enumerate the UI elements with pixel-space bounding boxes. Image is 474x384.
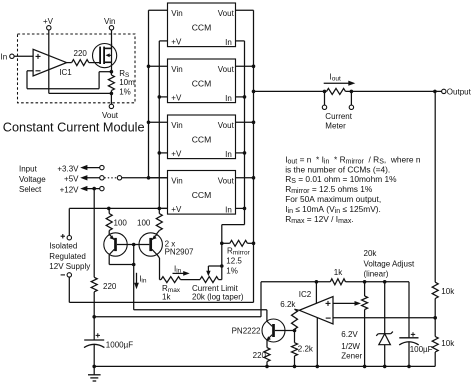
svg-text:In: In xyxy=(1,53,8,62)
svg-text:Meter: Meter xyxy=(325,121,346,130)
resistor R5 220 (supply filter) xyxy=(91,277,97,340)
wire IC2 + input to pot wiper arrow xyxy=(333,301,361,306)
resistor R9 1k xyxy=(330,279,345,285)
CCM module block U2 xyxy=(168,59,236,103)
terminal Vout (module output pin) xyxy=(102,104,119,120)
wire base tie down to collector join xyxy=(133,245,135,265)
terminal Output xyxy=(442,88,472,97)
node R6 ground xyxy=(265,365,269,369)
svg-text:10k: 10k xyxy=(441,339,455,348)
potentiometer Current Limit 20k (log taper) xyxy=(200,277,222,283)
label +12V xyxy=(60,186,80,195)
svg-text:Current: Current xyxy=(325,112,352,121)
wire supply - down right to Vout bus xyxy=(69,277,253,302)
svg-text:Vin: Vin xyxy=(171,121,182,130)
dotted link +5V selected xyxy=(104,177,117,179)
node Rs top (source sense node) xyxy=(110,70,114,74)
svg-text:Isolated: Isolated xyxy=(49,242,77,251)
transistor Q3 PN2907 (mirror output side) xyxy=(139,233,162,256)
svg-text:+V: +V xyxy=(171,94,182,103)
svg-text:Vin: Vin xyxy=(171,9,182,18)
select arrow +12V xyxy=(80,186,100,191)
node pot ground xyxy=(363,365,367,369)
wire +5V to Vin bus xyxy=(122,177,168,179)
svg-text:+V: +V xyxy=(171,205,182,214)
wire 220 to MOSFET gate xyxy=(89,62,100,64)
resistor R12 10k (divider bottom) xyxy=(432,337,438,367)
dashed module boundary box xyxy=(18,34,136,103)
label PN2222 xyxy=(232,327,261,336)
select arrow +5V xyxy=(80,175,100,180)
wire Vout pin stub U1 xyxy=(236,9,254,11)
ground return bus xyxy=(94,365,435,367)
svg-text:Zener: Zener xyxy=(341,351,362,360)
node ground bus left xyxy=(92,365,96,369)
resistor Rmax 1k xyxy=(160,277,181,283)
label +3.3V xyxy=(57,165,79,174)
label 2 x PN2907 xyxy=(165,239,194,256)
label Input Voltage Select xyxy=(19,165,46,194)
label R11 10k xyxy=(441,287,455,296)
resistor Rs 10m 1% (current sense) xyxy=(108,72,114,94)
label Rs value xyxy=(119,69,135,97)
CCM module block U3 xyxy=(168,115,236,159)
svg-text:PN2907: PN2907 xyxy=(165,247,194,256)
wire Q3 collector down to Rmax xyxy=(157,254,160,279)
svg-text:Vout: Vout xyxy=(218,65,235,74)
label 6.2k xyxy=(280,300,296,309)
svg-text:100µF: 100µF xyxy=(410,345,433,354)
label R4 100 xyxy=(137,219,151,228)
wire Q4 emitter down xyxy=(266,340,268,348)
svg-text:In: In xyxy=(225,206,232,215)
wire IC2 V+ pin xyxy=(315,282,317,303)
label Rmirror 12.5 1% xyxy=(226,246,250,275)
wire +V pin stub U1 xyxy=(159,40,167,42)
svg-text:Vout: Vout xyxy=(102,111,119,120)
node base tie xyxy=(132,243,136,247)
node C2 ground xyxy=(407,365,411,369)
svg-text:Regulated: Regulated xyxy=(49,252,85,261)
wire In terminal to op-amp + input xyxy=(14,55,33,57)
svg-text:PN2222: PN2222 xyxy=(232,327,261,336)
transistor Q2 PN2907 (mirror diode side) xyxy=(104,233,127,256)
wire Q4 base to bias node xyxy=(275,330,295,332)
svg-text:+V: +V xyxy=(171,150,182,159)
CCM module block U1 xyxy=(168,3,236,47)
node Q4 base bias xyxy=(293,329,297,333)
label +5V xyxy=(64,175,79,184)
wire supply + up to +V rail xyxy=(68,208,70,235)
wire Vout pin stub U2 xyxy=(236,65,254,67)
terminal meter left xyxy=(322,105,326,109)
wire Vin pin stub U4 xyxy=(149,177,168,179)
node wiper tie to In bus xyxy=(220,264,224,268)
wire base tie Q2-Q3 xyxy=(117,244,149,246)
svg-text:Constant Current Module: Constant Current Module xyxy=(3,120,145,134)
wire Iin programming line down xyxy=(133,265,135,310)
label R3 100 xyxy=(114,219,128,228)
svg-text:+3.3V: +3.3V xyxy=(57,165,79,174)
label 2.2k xyxy=(298,344,314,353)
svg-text:In: In xyxy=(225,150,232,159)
node In (module input terminal) xyxy=(1,53,15,62)
node IC2 V- ground xyxy=(316,365,320,369)
svg-text:CCM: CCM xyxy=(192,23,212,33)
svg-text:1%: 1% xyxy=(119,88,131,97)
svg-text:+12V: +12V xyxy=(60,186,80,195)
wire meter tap right xyxy=(350,91,352,105)
note formula text block xyxy=(285,154,421,224)
wire feedback: op-amp - input to Rs top (sense) xyxy=(27,71,111,89)
terminal supply + xyxy=(61,234,72,240)
wire IC2 V- pin to ground bus xyxy=(316,318,318,367)
svg-text:220: 220 xyxy=(253,351,267,360)
svg-text:10m: 10m xyxy=(119,78,135,87)
svg-text:Vin: Vin xyxy=(104,17,115,26)
svg-text:Output: Output xyxy=(447,88,472,97)
terminal +5V link right xyxy=(117,176,121,180)
node rail R3 xyxy=(107,207,111,211)
node divider tap xyxy=(433,316,437,320)
svg-text:12V Supply: 12V Supply xyxy=(49,262,90,271)
svg-text:+V: +V xyxy=(171,38,182,47)
caption Constant Current Module xyxy=(3,120,145,134)
svg-text:20k: 20k xyxy=(364,249,378,258)
svg-text:220: 220 xyxy=(103,282,117,291)
label Rmax 1k xyxy=(162,284,181,302)
terminal Vin (module drain supply pin) xyxy=(104,17,115,30)
label R6 220 xyxy=(253,351,267,360)
label Iin with right arrow (into pot) xyxy=(173,264,190,276)
pot wiper arrow xyxy=(206,266,222,276)
wire In pin stub U2 xyxy=(236,96,245,98)
svg-text:In: In xyxy=(225,94,232,103)
svg-text:+5V: +5V xyxy=(64,175,79,184)
wire main output line xyxy=(254,90,442,92)
svg-text:100: 100 xyxy=(137,219,151,228)
label 20k Voltage Adjust (linear) xyxy=(364,249,415,278)
junction dots on Vout bus xyxy=(252,65,256,180)
wire mid rail to IC2 section riser xyxy=(94,282,261,317)
potentiometer R10 20k Voltage Adjust xyxy=(362,282,368,367)
reference rail horizontal xyxy=(261,281,409,283)
resistor 220 (gate series) xyxy=(72,49,89,65)
svg-text:Vout: Vout xyxy=(218,9,235,18)
wire IC2 - input to divider tap xyxy=(333,317,435,319)
wire In pin stub U1 xyxy=(236,40,245,42)
node Rmirror right xyxy=(252,242,256,246)
svg-text:Input: Input xyxy=(19,165,38,174)
resistor R7 6.2k (IC2 out to base) xyxy=(292,309,300,330)
svg-text:IC2: IC2 xyxy=(299,290,312,299)
terminal supply - xyxy=(61,273,72,277)
svg-text:1/2W: 1/2W xyxy=(341,342,360,351)
wire Vout pin stub U4 xyxy=(236,177,254,179)
svg-text:For 50A maximum output,: For 50A maximum output, xyxy=(285,194,381,204)
wire +12V down to 220 filter resistor xyxy=(93,189,95,278)
svg-text:Voltage: Voltage xyxy=(19,175,46,184)
svg-text:CCM: CCM xyxy=(192,135,212,145)
svg-text:12.5: 12.5 xyxy=(226,257,242,266)
wire op-amp output to resistor 220 xyxy=(67,62,72,64)
wire Vin pin stub U3 xyxy=(149,121,168,123)
wire Q2 collector to join xyxy=(109,255,134,265)
wire +V pin stub U3 xyxy=(159,152,167,154)
wire +V pin stub U2 xyxy=(159,96,167,98)
svg-text:10k: 10k xyxy=(441,287,455,296)
svg-text:In: In xyxy=(225,38,232,47)
wire In pin stub U4 xyxy=(236,207,245,209)
wire In pin stub U3 xyxy=(236,152,245,154)
svg-text:Vout: Vout xyxy=(218,121,235,130)
svg-text:Vin: Vin xyxy=(171,65,182,74)
label Current Meter xyxy=(325,112,352,130)
junction dots on In bus xyxy=(243,95,247,210)
terminal select +12V xyxy=(100,186,104,190)
Vin bus vertical wire xyxy=(148,10,150,178)
svg-text:100: 100 xyxy=(114,219,128,228)
wire output down to divider xyxy=(434,91,436,282)
wire Vin terminal down to MOSFET drain xyxy=(111,30,113,49)
label Isolated Regulated 12V Supply xyxy=(49,242,90,271)
node zener ground xyxy=(383,365,387,369)
wire Rs bottom to Vout terminal xyxy=(110,93,112,104)
wire +V pin stub U4 xyxy=(159,207,167,209)
wire Vin pin stub U2 xyxy=(149,65,168,67)
label Iin with down arrow xyxy=(134,273,147,289)
svg-text:Vout: Vout xyxy=(218,177,235,186)
select arrow +3.3V xyxy=(80,165,100,170)
ground symbol xyxy=(88,375,101,381)
transistor Q4 PN2222 xyxy=(262,319,285,342)
wire Vout pin stub U3 xyxy=(236,121,254,123)
svg-text:1%: 1% xyxy=(226,267,238,276)
svg-text:20k (log taper): 20k (log taper) xyxy=(192,293,244,302)
svg-text:Voltage Adjust: Voltage Adjust xyxy=(364,259,415,268)
+V supply rail horizontal xyxy=(69,207,167,209)
svg-text:CCM: CCM xyxy=(192,190,212,200)
current meter shunt resistor xyxy=(327,88,346,94)
resistor R8 2.2k (base-ground) xyxy=(292,331,298,367)
label Iout with arrow xyxy=(324,73,356,86)
wire meter tap left xyxy=(324,91,326,105)
node meter right xyxy=(350,90,354,94)
node collector-base join (diode connection) xyxy=(132,263,136,267)
svg-text:+V: +V xyxy=(43,17,54,26)
terminal +V (module supply pin) xyxy=(43,17,54,30)
wire Iin line over to Q4 collector xyxy=(134,310,267,321)
junction dots on Vin bus xyxy=(147,65,151,180)
wire Vin pin stub U1 xyxy=(149,9,168,11)
node IC2 V+ tap on rail xyxy=(315,280,319,284)
svg-text:2.2k: 2.2k xyxy=(298,344,314,353)
terminal select +5V xyxy=(100,176,104,180)
wire +V terminal down and to Rs bottom node xyxy=(49,30,112,94)
label 6.2V 1/2W Zener xyxy=(341,330,362,360)
node Rmirror left xyxy=(220,242,224,246)
svg-text:220: 220 xyxy=(74,49,88,58)
resistor R4 100 (mirror emitter) xyxy=(156,208,162,234)
svg-text:6.2k: 6.2k xyxy=(280,300,296,309)
resistor Rmirror 12.5 1% xyxy=(222,240,254,246)
label 1k xyxy=(334,268,343,277)
node rail zener xyxy=(383,280,387,284)
zener diode D1 6.2V xyxy=(376,282,393,367)
node output feedback tap xyxy=(433,90,437,94)
capacitor C1 1000uF xyxy=(84,333,133,366)
node rail pot xyxy=(363,280,367,284)
junction dots on +V bus xyxy=(158,95,162,210)
svg-text:is the number of CCMs (=4).: is the number of CCMs (=4). xyxy=(285,164,390,174)
node filter cap top xyxy=(92,315,96,319)
svg-text:(linear): (linear) xyxy=(364,269,389,278)
svg-text:6.2V: 6.2V xyxy=(341,330,358,339)
resistor R11 10k (divider top) xyxy=(432,282,438,336)
svg-text:Select: Select xyxy=(19,185,42,194)
label Current Limit 20k xyxy=(192,284,244,302)
terminal select +3.3V xyxy=(100,165,104,169)
op-amp IC2 xyxy=(299,290,333,324)
resistor R3 100 (mirror emitter) xyxy=(106,208,112,234)
capacitor C2 100uF xyxy=(399,282,432,367)
terminal meter right xyxy=(349,105,353,109)
svg-text:1k: 1k xyxy=(162,293,171,302)
svg-text:1k: 1k xyxy=(334,268,343,277)
CCM module block U4 xyxy=(168,171,236,215)
Vout bus vertical wire xyxy=(253,10,255,302)
svg-text:Vin: Vin xyxy=(171,177,182,186)
node meter left xyxy=(323,90,327,94)
wire ground stub xyxy=(93,366,95,374)
In bus vertical wire with jog xyxy=(222,41,245,280)
node Rs bottom (Vout node) xyxy=(110,92,114,96)
label R12 10k xyxy=(441,339,455,348)
+V bus vertical wire xyxy=(158,41,160,209)
svg-text:CCM: CCM xyxy=(192,79,212,89)
node +12V tap xyxy=(92,187,96,191)
op-amp IC1 xyxy=(33,49,72,77)
wire Rmax to current limit pot xyxy=(181,279,201,281)
resistor R6 220 (emitter) xyxy=(264,348,270,367)
label R5 220 xyxy=(103,282,117,291)
svg-text:IC1: IC1 xyxy=(59,68,72,77)
MOSFET Q1 (CCM pass transistor) xyxy=(93,44,117,72)
node R8 ground xyxy=(293,365,297,369)
svg-text:1000µF: 1000µF xyxy=(106,340,133,349)
